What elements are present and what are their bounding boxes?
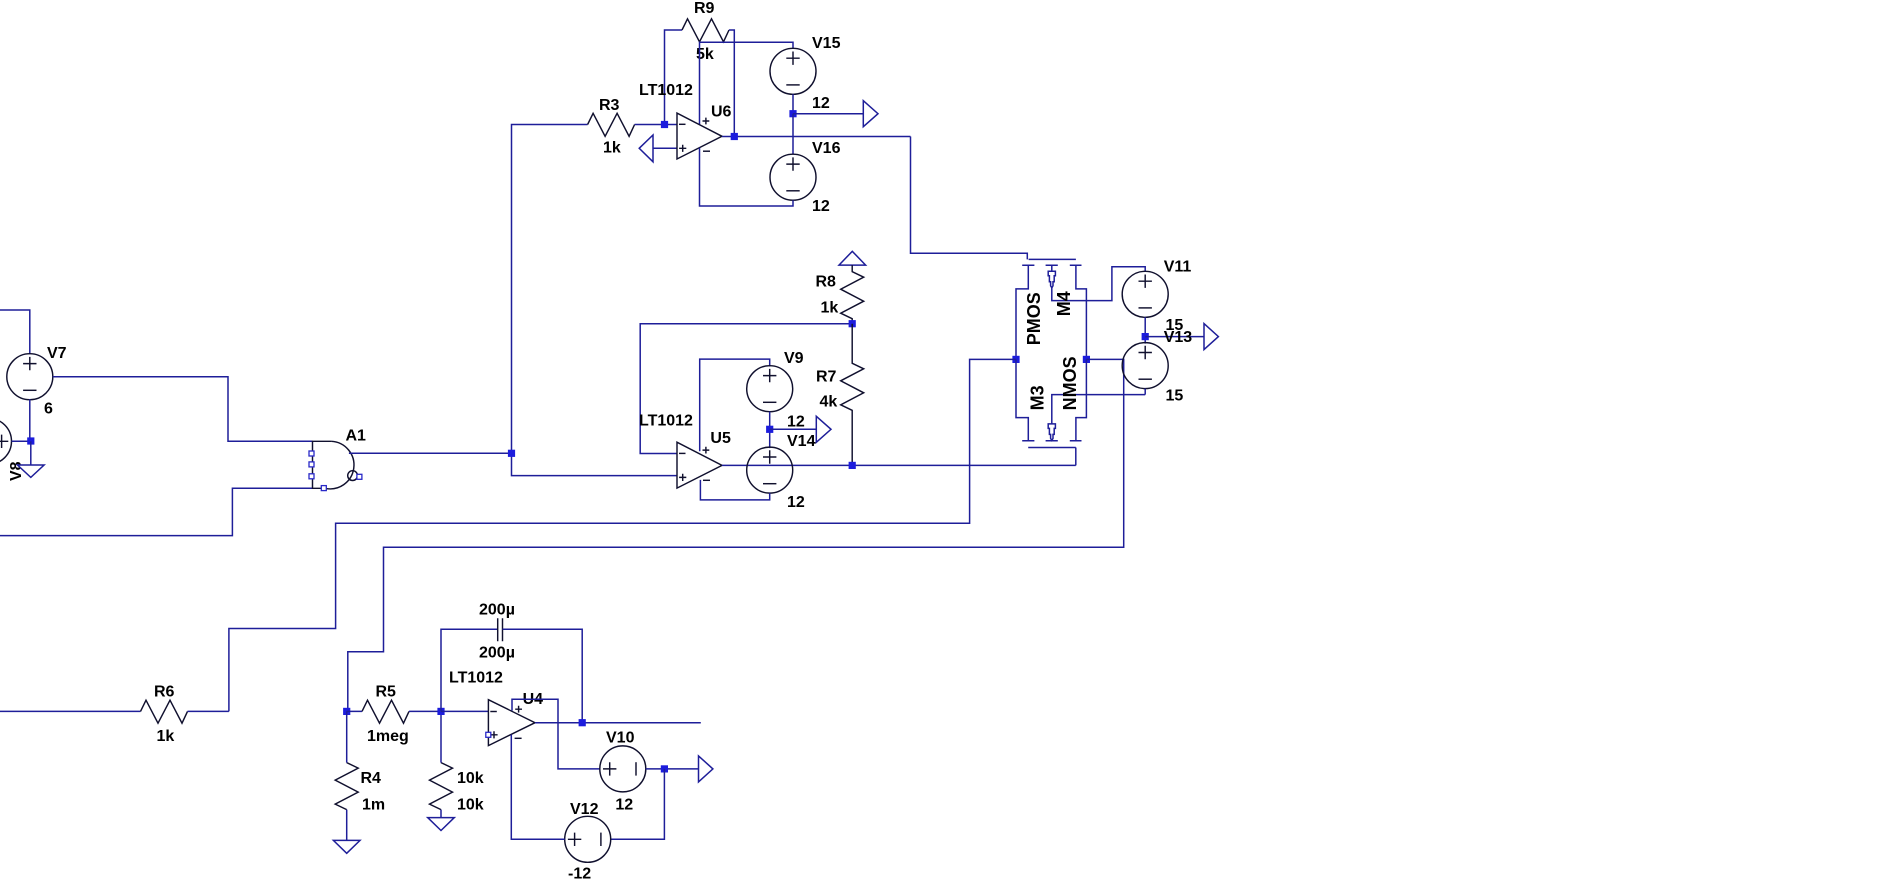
resistor R3 [588,113,635,136]
op-amp U6 LT1012 [639,82,732,159]
svg-text:200µ: 200µ [479,602,515,619]
svg-text:6: 6 [44,401,53,418]
wire V10 right lead to junction [646,768,699,770]
svg-text:12: 12 [787,414,805,431]
node V9/V14 junction [766,426,773,433]
svg-text:LT1012: LT1012 [639,413,693,430]
wire U4 output [535,722,701,724]
svg-text:12: 12 [787,494,805,511]
node U6 output junction [731,133,738,140]
wire R5 leads [347,710,441,712]
svg-text:V13: V13 [1164,329,1193,346]
node R7 bottom junction on U5 output net [849,462,856,469]
svg-text:1k: 1k [821,299,839,316]
gate A1 [309,428,366,491]
resistor R7 [841,324,864,466]
wire R3 input net from A1 junction [512,125,588,454]
resistor R8 [841,265,864,324]
svg-text:R9: R9 [694,0,715,17]
wire U6 output net to M4 gate [911,137,1028,260]
wire junction down to V12 [611,769,665,839]
node MOSFET left rail junction [1012,356,1019,363]
wire V14 bottom to U5 V- rail [700,480,769,500]
wire V11 bottom to V13 top [1144,317,1146,343]
svg-text:-12: -12 [568,866,591,883]
wire U5 inverting feedback net to R8 bottom [640,324,852,454]
svg-text:LT1012: LT1012 [639,82,693,99]
port arrow U6 noninverting input [639,135,653,162]
wire port to U6 + input [653,147,677,149]
svg-text:NMOS: NMOS [1060,356,1080,410]
svg-text:R4: R4 [361,770,382,787]
svg-text:1m: 1m [362,797,385,814]
node A1 output junction [508,450,515,457]
wire U5 output to M3 gate riser [722,464,1076,466]
svg-text:R6: R6 [154,684,175,701]
svg-text:R3: R3 [599,97,620,114]
svg-text:1meg: 1meg [367,728,409,745]
voltage source V9 [747,350,805,431]
svg-text:12: 12 [812,95,830,112]
voltage source V14 [747,447,805,511]
svg-text:V14: V14 [787,433,816,450]
wire U6 V+ rail to V15 top [700,42,794,125]
svg-text:V7: V7 [47,345,67,362]
svg-text:U6: U6 [711,104,732,121]
node V10 output junction [661,765,668,772]
node U4 output junction [579,719,586,726]
voltage source V16 [770,140,841,215]
voltage source V11 [1122,259,1191,334]
svg-text:LT1012: LT1012 [449,669,503,686]
capacitor C 200u [479,602,515,662]
op-amp U4 LT1012 [449,669,543,745]
wire A1 lower input from left edge [0,488,313,535]
resistor 10k [430,763,453,810]
wire R4 leads [346,711,348,840]
wire A1 junction to U5 + input [512,453,678,475]
wire V9 bottom to V14 top [769,412,771,448]
wire junction to port [770,428,817,430]
wire junction to ground [30,441,32,465]
node MOSFET right rail junction [1083,356,1090,363]
node V15/V16 junction [789,110,796,117]
node U6 inverting junction [661,121,668,128]
svg-text:12: 12 [615,796,633,813]
wire R9 right lead down to U6 output [729,30,734,137]
voltage source V13 [1122,343,1183,405]
wire V16 top lead [792,114,794,155]
wire V15 bottom to rail junction [792,94,794,113]
port arrow 12V mid rail [816,416,831,442]
wire capacitor right lead to output junction [503,629,583,723]
wire capacitor left lead [441,629,498,711]
svg-text:200µ: 200µ [479,645,515,662]
wire V7 top lead to left edge [0,310,30,354]
op-amp U5 LT1012 [639,413,731,489]
svg-text:1k: 1k [603,140,621,157]
wire midpoint feedback to lower-left [229,359,1016,711]
svg-text:V12: V12 [570,801,599,818]
wire R6 left lead [0,710,141,712]
voltage source V10 [600,729,646,813]
wire U4 V+ rail to V10 [512,699,600,769]
resistor R9 [682,19,729,42]
svg-text:1k: 1k [157,728,175,745]
ground R4 [333,840,360,853]
svg-text:V10: V10 [606,729,635,746]
wire V13 bottom lead [1144,389,1146,395]
svg-text:V16: V16 [812,140,841,157]
node R8/R7 junction [849,320,856,327]
port arrow output [699,756,713,782]
svg-text:15: 15 [1166,388,1184,405]
resistor R5 [362,700,409,723]
wire junction to output port [793,113,863,115]
svg-text:10k: 10k [457,770,484,787]
wire U6 output [722,136,911,138]
wire R6 right lead up [188,710,229,712]
wire A1 output to junction [349,452,512,454]
wire junction to port [1145,336,1204,338]
svg-text:R5: R5 [376,684,397,701]
wire U5 V+ rail to V9 top [700,359,770,451]
ground 10k [428,818,455,831]
svg-text:12: 12 [812,198,830,215]
svg-text:V15: V15 [812,35,841,52]
ground [18,465,45,477]
svg-text:R7: R7 [816,369,837,386]
svg-text:5k: 5k [696,46,714,63]
voltage source V12 [565,801,611,883]
wire V12 left lead to U4 V- rail [511,735,564,840]
port arrow 15V rail [1204,324,1218,350]
port arrow 12V rail [863,101,878,127]
svg-text:M3: M3 [1028,385,1048,410]
wire junction to U4 inverting input [441,710,488,712]
svg-text:M4: M4 [1054,291,1074,316]
node R5 right junction [437,708,444,715]
wire R9 left lead to U6 inverting node [665,30,683,125]
wire 10k leads [440,711,442,817]
node R5 left junction [343,708,350,715]
transistor M3 NMOS [1016,356,1145,465]
svg-text:PMOS: PMOS [1024,292,1044,345]
svg-text:4k: 4k [820,393,838,410]
port arrow up at R8 top [839,251,866,265]
node V11/V13 junction [1142,333,1149,340]
node V7/V8 ground junction [27,437,34,444]
svg-text:10k: 10k [457,797,484,814]
wire V7 to A1 upper input [53,377,313,442]
svg-text:U5: U5 [710,430,731,447]
transistor M4 PMOS [1016,259,1145,359]
voltage source V15 [770,35,841,112]
wire V7 bottom to ground junction [30,399,31,441]
svg-text:R8: R8 [816,273,837,290]
voltage source V7 [7,345,67,418]
wire R3 to U6 inverting input [635,124,677,126]
svg-text:V9: V9 [784,350,804,367]
resistor R6 [141,700,188,723]
wire V16 bottom to U6 V- rail [700,148,794,206]
wire right rail down to bottom section [348,359,1124,711]
svg-text:A1: A1 [346,428,367,445]
voltage source V8 (clipped at edge) [0,418,31,481]
resistor R4 [335,763,358,810]
svg-text:V11: V11 [1164,259,1192,276]
